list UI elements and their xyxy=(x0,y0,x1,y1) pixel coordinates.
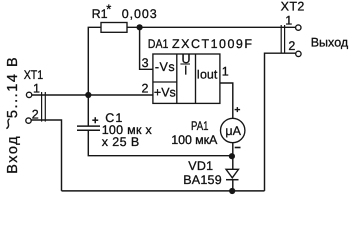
connector XT1 pin 1 circle xyxy=(26,92,31,97)
wire VD1 cathode to bottom rail xyxy=(232,180,234,191)
tilde of input label xyxy=(6,119,9,129)
svg-text:2: 2 xyxy=(288,39,295,53)
label R1* xyxy=(92,2,112,21)
node R1-right junction dot xyxy=(137,24,143,30)
resistor R1 xyxy=(101,23,127,33)
svg-text:μА: μА xyxy=(225,124,241,138)
wire right riser bottom rail to XT2 pin2 xyxy=(265,53,296,191)
svg-text:XT1: XT1 xyxy=(24,68,44,82)
capacitor C1 plates xyxy=(77,126,100,130)
diode VD1 xyxy=(226,169,239,179)
svg-text:3: 3 xyxy=(142,56,149,70)
wire top rail from node A corner to XT2 pin1 xyxy=(88,27,295,126)
svg-text:Iout: Iout xyxy=(197,67,218,81)
svg-text:2: 2 xyxy=(142,82,149,96)
svg-text:I: I xyxy=(184,64,187,78)
ammeter PA1 circle xyxy=(221,118,245,142)
wire XT1 pin2 to left drop xyxy=(31,120,61,191)
svg-text:1: 1 xyxy=(33,81,40,95)
node bottom-rail junction dot xyxy=(229,188,235,194)
svg-text:Вход 5...14 В: Вход 5...14 В xyxy=(5,57,21,174)
svg-text:PA1: PA1 xyxy=(191,119,209,133)
svg-text:*: * xyxy=(106,2,111,17)
wire R1 right junction down to DA1 -Vs (pin 3) xyxy=(140,27,153,69)
node PA1-minus junction dot xyxy=(229,153,235,159)
wire DA1 Iout (pin 1) to PA1 top xyxy=(220,83,233,119)
node A junction dot xyxy=(85,92,91,98)
connector XT1 double lines xyxy=(42,92,46,122)
connector XT2 pin 2 circle xyxy=(296,51,301,56)
C1 plus sign xyxy=(92,117,98,123)
svg-text:2: 2 xyxy=(32,108,39,122)
svg-text:х 25 В: х 25 В xyxy=(102,135,140,149)
svg-text:0,003: 0,003 xyxy=(122,7,157,21)
svg-text:-Vs: -Vs xyxy=(155,60,175,74)
wire C1 bottom to PA1-minus node xyxy=(88,130,232,156)
svg-text:VD1: VD1 xyxy=(188,159,213,173)
svg-text:+Vs: +Vs xyxy=(154,86,176,100)
svg-text:BA159: BA159 xyxy=(183,173,222,187)
svg-text:ZXCT1009F: ZXCT1009F xyxy=(172,37,252,51)
wire XT1 pin1 to DA1 +Vs (pin 2) xyxy=(32,94,153,96)
op-amp U1: DA1 ZXCT1009F box xyxy=(153,54,220,103)
svg-text:DA1: DA1 xyxy=(148,37,169,51)
wire PA1 bottom to diode VD1 anode xyxy=(232,143,234,170)
svg-text:1: 1 xyxy=(285,13,292,27)
svg-text:R1: R1 xyxy=(92,7,108,21)
svg-text:100 мкА: 100 мкА xyxy=(171,133,218,147)
svg-text:XT2: XT2 xyxy=(281,0,305,14)
PA1 plus terminal xyxy=(235,107,241,112)
connector XT2 pin 1 circle xyxy=(296,25,301,30)
svg-text:1: 1 xyxy=(222,65,229,79)
label U/I converter xyxy=(180,52,190,78)
connector XT1 pin 2 circle xyxy=(26,118,31,123)
PA1 minus terminal xyxy=(235,147,241,149)
wire bottom rail xyxy=(62,190,265,192)
svg-text:Выход: Выход xyxy=(311,36,349,50)
connector XT2 double lines xyxy=(281,25,284,53)
